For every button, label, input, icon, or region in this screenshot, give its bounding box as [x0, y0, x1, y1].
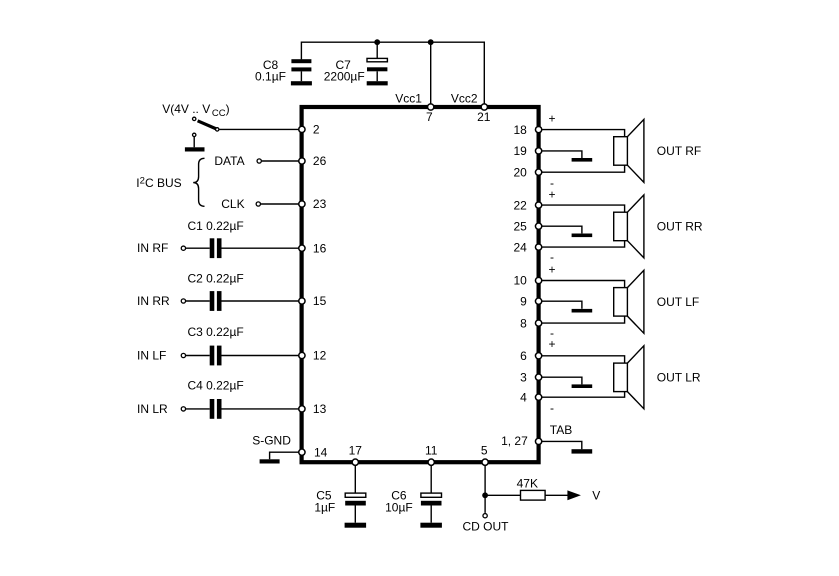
wire IN LF to C3	[186, 355, 210, 357]
wire Vcc1 branch	[430, 42, 432, 105]
svg-text:IN LR: IN LR	[137, 402, 168, 416]
svg-text:15: 15	[313, 294, 327, 308]
wire pin 6 to speaker	[542, 356, 625, 364]
svg-text:10µF: 10µF	[385, 501, 413, 515]
node IN LR	[137, 402, 186, 416]
wire pin 11 to C6	[430, 466, 432, 494]
capacitor C6	[421, 493, 442, 523]
svg-text:8: 8	[520, 316, 527, 330]
IC U1 body	[302, 107, 539, 462]
node IN LF	[137, 349, 186, 363]
svg-text:13: 13	[313, 402, 327, 416]
svg-text:6: 6	[520, 349, 527, 363]
pin 16	[299, 241, 327, 255]
svg-text:CLK: CLK	[221, 197, 244, 211]
wire pin 5 down	[484, 466, 486, 513]
svg-text:+: +	[548, 111, 555, 125]
ground OUT LR	[572, 384, 593, 388]
pin 4	[520, 390, 542, 404]
svg-text:Vcc2: Vcc2	[451, 91, 478, 105]
svg-text:Vcc1: Vcc1	[395, 91, 422, 105]
svg-text:OUT LF: OUT LF	[657, 295, 699, 309]
wire TAB to ground	[542, 441, 582, 449]
wire pin 17 to C5	[354, 466, 356, 494]
svg-text:10: 10	[513, 274, 527, 288]
pin 25	[513, 219, 541, 233]
pin 8	[520, 316, 542, 330]
svg-text:5: 5	[481, 443, 488, 457]
svg-text:12: 12	[313, 349, 327, 363]
svg-text:19: 19	[513, 144, 527, 158]
junction pin 5 node	[482, 492, 488, 498]
speaker LS1	[614, 119, 644, 182]
wire pin 19 to ground	[542, 151, 582, 158]
wire pin 22 to speaker	[542, 205, 625, 212]
wire junction to R1	[485, 494, 520, 496]
pin 12	[299, 349, 327, 363]
wire pin 18 to speaker	[542, 130, 625, 137]
pin 26	[299, 154, 327, 168]
svg-text:C2 0.22µF: C2 0.22µF	[187, 272, 243, 286]
junction at C7	[374, 39, 380, 45]
wire pin 14 to ground	[270, 452, 299, 459]
pin 24	[513, 240, 541, 254]
wire C2 to pin 15	[222, 300, 299, 302]
wire pin 3 to ground	[542, 377, 582, 384]
pin 15	[299, 294, 327, 308]
arrow to V	[567, 490, 581, 500]
ground OUT RF	[572, 158, 593, 162]
svg-text:S-GND: S-GND	[252, 434, 291, 448]
pin 11	[425, 444, 438, 466]
wire C3 to pin 12	[222, 355, 299, 357]
ground C8	[291, 81, 312, 85]
pin 14	[299, 445, 328, 459]
wire C4 to pin 13	[222, 408, 299, 410]
wire pin 9 to ground	[542, 301, 582, 309]
svg-text:OUT RR: OUT RR	[657, 220, 703, 234]
svg-text:7: 7	[426, 110, 433, 124]
ground S-GND	[260, 459, 280, 463]
wire IN RR to C2	[186, 300, 210, 302]
svg-text:17: 17	[349, 444, 363, 458]
svg-text:21: 21	[477, 110, 491, 124]
wire pin 10 to speaker	[542, 281, 625, 288]
wire pin 8 to speaker	[542, 316, 625, 323]
pin 19	[513, 144, 541, 158]
svg-text:24: 24	[513, 240, 527, 254]
capacitor C8	[291, 59, 311, 81]
wire CLK to pin 23	[261, 203, 299, 205]
svg-text:C1 0.22µF: C1 0.22µF	[187, 219, 243, 233]
capacitor C3	[210, 346, 222, 366]
svg-text:DATA: DATA	[214, 154, 244, 168]
svg-text:2: 2	[313, 123, 320, 137]
speaker LS3	[614, 270, 644, 333]
resistor R1 47K	[521, 490, 546, 500]
svg-text:-: -	[550, 401, 554, 415]
svg-text:OUT RF: OUT RF	[657, 144, 701, 158]
wire IN LR to C4	[186, 408, 210, 410]
svg-text:3: 3	[520, 370, 527, 384]
speaker LS2	[614, 195, 644, 258]
svg-text:9: 9	[520, 294, 527, 308]
ground OUT RR	[572, 234, 593, 238]
svg-text:11: 11	[425, 444, 438, 458]
node CLK	[221, 197, 260, 211]
svg-text:26: 26	[313, 154, 327, 168]
ground switch	[185, 147, 205, 151]
node IN RF	[137, 241, 186, 255]
pin 1,27 TAB	[501, 434, 542, 448]
junction at Vcc1 branch	[428, 39, 434, 45]
pin 18	[513, 123, 541, 137]
svg-text:1µF: 1µF	[314, 501, 335, 515]
pin 7	[426, 104, 434, 124]
svg-text:+: +	[548, 337, 555, 351]
node CD OUT	[463, 514, 510, 534]
pin 20	[513, 165, 541, 179]
pin 13	[299, 402, 327, 416]
speaker LS4	[614, 346, 644, 409]
wire DATA to pin 26	[262, 160, 299, 162]
svg-text:18: 18	[513, 123, 527, 137]
svg-text:1, 27: 1, 27	[501, 434, 528, 448]
svg-text:23: 23	[313, 197, 327, 211]
svg-text:IN RR: IN RR	[137, 294, 170, 308]
wire pin 24 to speaker	[542, 240, 625, 247]
svg-text:+: +	[548, 188, 555, 202]
pin 6	[520, 349, 542, 363]
svg-text:4: 4	[520, 390, 527, 404]
pin 5	[481, 443, 488, 465]
wire C7 branch	[376, 42, 378, 58]
svg-text:C4 0.22µF: C4 0.22µF	[187, 379, 243, 393]
switch S1	[193, 117, 219, 147]
wire pin 20 to speaker	[542, 165, 625, 172]
ground OUT LF	[572, 309, 593, 313]
wire top supply rail	[301, 42, 484, 105]
svg-text:0.1µF: 0.1µF	[255, 70, 286, 84]
capacitor C5	[345, 493, 366, 523]
svg-text:2200µF: 2200µF	[324, 70, 365, 84]
node IN RR	[137, 294, 186, 308]
pin 2	[299, 123, 320, 137]
wire pin 25 to ground	[542, 226, 582, 233]
pin 21	[477, 104, 491, 124]
svg-text:C3 0.22µF: C3 0.22µF	[187, 325, 243, 339]
pin 17	[349, 444, 363, 466]
svg-text:IN RF: IN RF	[137, 241, 168, 255]
wire IN RF to C1	[186, 247, 210, 249]
wire C1 to pin 16	[222, 247, 299, 249]
pin 22	[513, 198, 541, 212]
svg-text:20: 20	[513, 165, 527, 179]
pin 3	[520, 370, 542, 384]
ground C6	[420, 523, 442, 528]
wire switch to pin 2	[219, 128, 298, 130]
capacitor C1	[210, 238, 222, 258]
svg-text:25: 25	[513, 219, 527, 233]
svg-text:+: +	[548, 262, 555, 276]
ground C7	[367, 81, 388, 85]
svg-text:OUT LR: OUT LR	[657, 371, 701, 385]
capacitor C7	[367, 58, 387, 81]
pin 9	[520, 294, 542, 308]
svg-text:V: V	[592, 489, 600, 503]
wire pin 4 to speaker	[542, 391, 625, 397]
svg-text:IN LF: IN LF	[137, 349, 166, 363]
capacitor C2	[210, 291, 222, 311]
pin 10	[513, 274, 541, 288]
brace I2C bus	[193, 158, 204, 206]
svg-text:TAB: TAB	[550, 423, 572, 437]
svg-text:CD OUT: CD OUT	[463, 519, 510, 533]
svg-text:47K: 47K	[517, 476, 538, 490]
svg-text:22: 22	[513, 198, 527, 212]
node DATA	[214, 154, 261, 168]
capacitor C4	[210, 399, 222, 419]
svg-text:14: 14	[314, 445, 328, 459]
ground TAB	[572, 449, 593, 453]
svg-text:16: 16	[313, 241, 327, 255]
ground C5	[345, 523, 367, 528]
wire R1 to arrow	[545, 494, 568, 496]
pin 23	[299, 197, 327, 211]
